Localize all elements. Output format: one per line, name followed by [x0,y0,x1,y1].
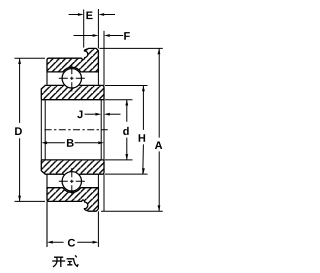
dimension d [105,100,133,160]
bore edge lines left (inner face + chamfer) [41,100,45,160]
outer ring top section with flange [47,48,98,72]
inner ring bottom section [41,160,104,178]
dimension J [77,111,82,119]
caption 开式 (open type), drawn strokes [52,255,78,267]
inner ring top section [41,82,104,100]
ball bottom centerlines [59,180,85,182]
bore edge lines right (chamfer + inner face, J extensions) [101,100,104,160]
axis centerline dashed [45,129,108,131]
outer ring bottom section with flange [47,188,98,212]
dimension C [53,241,93,243]
dimension A [99,48,162,211]
dimension E [69,14,115,16]
ball top [62,69,81,88]
ball bottom [62,172,81,191]
outer left face line through gap band and below part (C extension) [46,72,48,247]
dimension F [74,35,124,37]
F right extension / flange right face x=104 [103,31,105,211]
dimension B [47,142,98,144]
ball top centerlines [59,77,85,79]
dimension D [15,58,46,201]
right extension line x=98.4 (E right / F left / flange face / C right) [97,9,99,247]
dimension H [105,86,148,175]
